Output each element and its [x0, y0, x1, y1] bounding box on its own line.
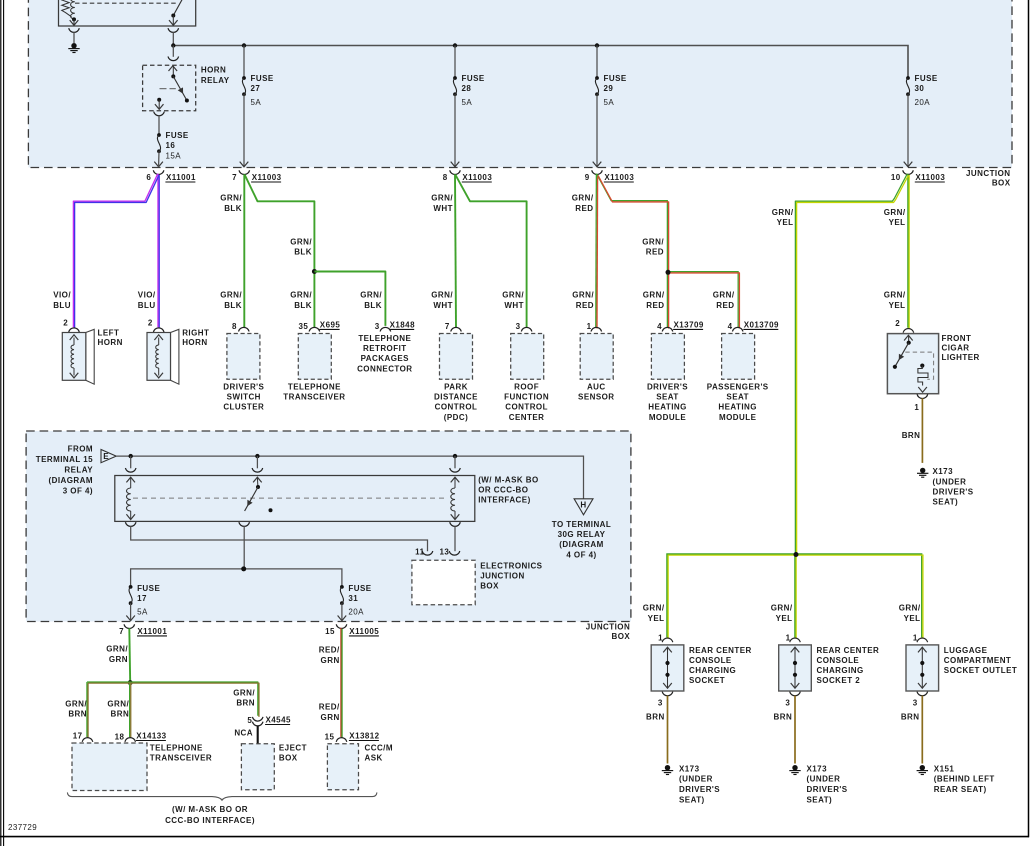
svg-text:RED: RED	[646, 301, 664, 310]
svg-text:X13709: X13709	[674, 321, 704, 330]
svg-text:FUSE: FUSE	[348, 584, 371, 593]
svg-text:LUGGAGE: LUGGAGE	[944, 646, 988, 655]
svg-text:SEAT: SEAT	[656, 393, 679, 402]
svg-text:COMPARTMENT: COMPARTMENT	[944, 656, 1011, 665]
svg-text:DRIVER'S: DRIVER'S	[933, 487, 974, 496]
svg-text:JUNCTION: JUNCTION	[480, 572, 525, 581]
svg-text:PACKAGES: PACKAGES	[361, 354, 410, 363]
svg-text:AUC: AUC	[587, 383, 606, 392]
svg-text:1: 1	[786, 633, 791, 642]
svg-text:YEL: YEL	[648, 614, 665, 623]
svg-text:RELAY: RELAY	[201, 76, 230, 85]
svg-text:OR CCC-BO: OR CCC-BO	[478, 486, 528, 495]
svg-text:GRN/: GRN/	[884, 208, 906, 217]
svg-text:NCA: NCA	[234, 728, 253, 737]
svg-text:FUSE: FUSE	[137, 584, 160, 593]
svg-text:15: 15	[325, 733, 335, 742]
svg-text:2: 2	[895, 319, 900, 328]
svg-text:DRIVER'S: DRIVER'S	[679, 785, 720, 794]
svg-text:X695: X695	[320, 321, 341, 330]
svg-text:X173: X173	[933, 467, 954, 476]
svg-text:TERMINAL 15: TERMINAL 15	[36, 455, 93, 464]
svg-text:BLK: BLK	[224, 301, 242, 310]
svg-text:DISTANCE: DISTANCE	[434, 393, 478, 402]
svg-text:MODULE: MODULE	[649, 413, 687, 422]
svg-text:GRN/: GRN/	[572, 291, 594, 300]
svg-text:FROM: FROM	[68, 445, 93, 454]
svg-text:X11003: X11003	[252, 173, 282, 182]
svg-text:3: 3	[375, 322, 380, 331]
svg-text:29: 29	[604, 84, 614, 93]
svg-text:(PDC): (PDC)	[444, 413, 468, 422]
svg-text:DRIVER'S: DRIVER'S	[223, 383, 264, 392]
svg-text:CIGAR: CIGAR	[942, 343, 970, 352]
svg-text:SOCKET OUTLET: SOCKET OUTLET	[944, 666, 1017, 675]
svg-text:4: 4	[728, 322, 733, 331]
svg-text:X11003: X11003	[462, 173, 492, 182]
svg-text:BRN: BRN	[901, 713, 920, 722]
svg-text:1: 1	[587, 322, 592, 331]
svg-text:3: 3	[785, 698, 790, 707]
svg-text:BOX: BOX	[612, 632, 631, 641]
svg-text:SWITCH: SWITCH	[227, 393, 261, 402]
svg-text:16: 16	[166, 141, 176, 150]
svg-text:VIO/: VIO/	[138, 291, 156, 300]
svg-text:GRN/: GRN/	[642, 237, 664, 246]
svg-text:1: 1	[914, 403, 919, 412]
svg-text:FUSE: FUSE	[604, 74, 627, 83]
svg-text:(BEHIND LEFT: (BEHIND LEFT	[934, 775, 995, 784]
svg-text:GRN/: GRN/	[220, 291, 242, 300]
svg-text:E: E	[103, 452, 109, 461]
svg-text:GRN/: GRN/	[290, 291, 312, 300]
svg-text:ROOF: ROOF	[514, 383, 539, 392]
svg-text:X4545: X4545	[266, 716, 291, 725]
svg-text:BLK: BLK	[294, 248, 312, 257]
svg-text:RED: RED	[575, 204, 593, 213]
svg-text:CONNECTOR: CONNECTOR	[357, 364, 412, 373]
svg-text:15: 15	[325, 627, 335, 636]
svg-text:3: 3	[516, 322, 521, 331]
svg-text:CONTROL: CONTROL	[505, 403, 548, 412]
svg-text:9: 9	[585, 173, 590, 182]
svg-text:X1848: X1848	[390, 321, 415, 330]
svg-text:CONSOLE: CONSOLE	[689, 656, 732, 665]
svg-text:EJECT: EJECT	[279, 744, 307, 753]
svg-text:JUNCTION: JUNCTION	[586, 623, 631, 632]
svg-text:(UNDER: (UNDER	[679, 775, 713, 784]
svg-text:X11005: X11005	[349, 627, 379, 636]
svg-text:BOX: BOX	[279, 754, 298, 763]
svg-text:17: 17	[73, 732, 83, 741]
svg-text:BLU: BLU	[53, 301, 71, 310]
svg-text:BRN: BRN	[902, 431, 921, 440]
svg-text:3 OF 4): 3 OF 4)	[63, 486, 93, 495]
svg-text:X11001: X11001	[166, 173, 196, 182]
svg-text:GRN/: GRN/	[884, 291, 906, 300]
svg-text:YEL: YEL	[904, 614, 921, 623]
svg-text:FUSE: FUSE	[462, 74, 485, 83]
svg-text:30G RELAY: 30G RELAY	[558, 530, 606, 539]
svg-text:BLK: BLK	[294, 301, 312, 310]
svg-text:13: 13	[439, 547, 449, 556]
svg-text:8: 8	[232, 322, 237, 331]
svg-text:ASK: ASK	[365, 754, 383, 763]
svg-text:SOCKET 2: SOCKET 2	[817, 676, 861, 685]
svg-text:SEAT: SEAT	[726, 393, 749, 402]
svg-text:X11001: X11001	[137, 627, 167, 636]
svg-text:2: 2	[148, 319, 153, 328]
svg-text:GRN/: GRN/	[107, 699, 129, 708]
svg-text:YEL: YEL	[776, 614, 793, 623]
svg-text:PARK: PARK	[444, 383, 468, 392]
svg-text:SOCKET: SOCKET	[689, 676, 725, 685]
svg-text:YEL: YEL	[889, 301, 906, 310]
svg-text:TELEPHONE: TELEPHONE	[150, 744, 203, 753]
svg-text:GRN/: GRN/	[643, 291, 665, 300]
svg-text:CCC/M: CCC/M	[365, 744, 393, 753]
svg-text:17: 17	[137, 594, 147, 603]
svg-text:GRN/: GRN/	[65, 699, 87, 708]
svg-text:7: 7	[232, 173, 237, 182]
svg-text:(UNDER: (UNDER	[807, 775, 841, 784]
svg-text:REAR CENTER: REAR CENTER	[817, 646, 880, 655]
svg-text:BOX: BOX	[992, 179, 1011, 188]
svg-text:4: 4	[657, 322, 662, 331]
svg-text:18: 18	[115, 733, 125, 742]
svg-text:REAR SEAT): REAR SEAT)	[934, 785, 987, 794]
svg-text:BRN: BRN	[68, 710, 87, 719]
svg-text:GRN/: GRN/	[771, 604, 793, 613]
svg-text:5A: 5A	[251, 98, 262, 107]
svg-text:CONTROL: CONTROL	[435, 403, 478, 412]
svg-text:RED/: RED/	[319, 646, 340, 655]
svg-text:11: 11	[415, 547, 424, 556]
svg-text:PASSENGER'S: PASSENGER'S	[707, 383, 769, 392]
svg-text:GRN/: GRN/	[572, 194, 594, 203]
svg-text:GRN: GRN	[109, 655, 128, 664]
svg-text:CENTER: CENTER	[509, 413, 545, 422]
svg-text:DRIVER'S: DRIVER'S	[647, 383, 688, 392]
svg-text:28: 28	[462, 84, 472, 93]
svg-text:WHT: WHT	[504, 301, 524, 310]
svg-text:GRN/: GRN/	[502, 291, 524, 300]
svg-text:(DIAGRAM: (DIAGRAM	[49, 476, 93, 485]
svg-text:5: 5	[247, 716, 252, 725]
svg-text:CLUSTER: CLUSTER	[223, 403, 264, 412]
svg-text:RED: RED	[576, 301, 594, 310]
svg-text:RIGHT: RIGHT	[182, 328, 209, 337]
svg-text:15A: 15A	[166, 151, 182, 160]
svg-text:REAR CENTER: REAR CENTER	[689, 646, 752, 655]
svg-text:GRN/: GRN/	[772, 208, 794, 217]
svg-text:HEATING: HEATING	[718, 403, 757, 412]
svg-text:YEL: YEL	[777, 218, 794, 227]
svg-text:HEATING: HEATING	[648, 403, 687, 412]
svg-text:10: 10	[891, 173, 901, 182]
svg-text:GRN/: GRN/	[899, 604, 921, 613]
svg-text:TRANSCEIVER: TRANSCEIVER	[283, 393, 345, 402]
svg-text:RETROFIT: RETROFIT	[363, 344, 407, 353]
svg-text:2: 2	[63, 319, 68, 328]
svg-text:RED: RED	[646, 248, 664, 257]
svg-text:7: 7	[445, 322, 450, 331]
svg-text:GRN: GRN	[321, 713, 340, 722]
svg-text:20A: 20A	[915, 98, 931, 107]
svg-text:X11003: X11003	[604, 173, 634, 182]
svg-text:237729: 237729	[8, 823, 37, 832]
svg-text:5A: 5A	[604, 98, 615, 107]
svg-text:GRN/: GRN/	[643, 604, 665, 613]
svg-text:RED: RED	[716, 301, 734, 310]
svg-text:X013709: X013709	[744, 321, 779, 330]
svg-text:FUNCTION: FUNCTION	[504, 393, 549, 402]
svg-text:GRN/: GRN/	[106, 645, 128, 654]
svg-text:30: 30	[915, 84, 925, 93]
svg-text:BLU: BLU	[138, 301, 156, 310]
svg-text:X173: X173	[679, 764, 700, 773]
svg-text:BRN: BRN	[236, 699, 255, 708]
svg-text:GRN/: GRN/	[431, 291, 453, 300]
svg-text:FUSE: FUSE	[251, 74, 274, 83]
svg-text:FUSE: FUSE	[915, 74, 938, 83]
svg-text:X11003: X11003	[915, 173, 945, 182]
svg-text:(UNDER: (UNDER	[933, 477, 967, 486]
svg-text:JUNCTION: JUNCTION	[966, 169, 1011, 178]
svg-text:WHT: WHT	[433, 204, 453, 213]
svg-text:BLK: BLK	[364, 301, 382, 310]
svg-text:4 OF 4): 4 OF 4)	[566, 550, 596, 559]
svg-text:X173: X173	[807, 764, 828, 773]
svg-text:CHARGING: CHARGING	[817, 666, 864, 675]
svg-text:RELAY: RELAY	[64, 466, 93, 475]
svg-text:SEAT): SEAT)	[933, 498, 959, 507]
svg-text:INTERFACE): INTERFACE)	[478, 495, 531, 504]
svg-text:RED/: RED/	[319, 703, 340, 712]
svg-text:X13812: X13812	[349, 732, 379, 741]
svg-text:SEAT): SEAT)	[807, 796, 833, 805]
svg-text:BRN: BRN	[646, 713, 665, 722]
svg-text:TRANSCEIVER: TRANSCEIVER	[150, 754, 212, 763]
svg-text:1: 1	[658, 633, 663, 642]
svg-text:GRN/: GRN/	[233, 688, 255, 697]
svg-text:CHARGING: CHARGING	[689, 666, 736, 675]
svg-text:BLK: BLK	[224, 204, 242, 213]
svg-text:X14133: X14133	[136, 732, 166, 741]
svg-text:(W/ M-ASK BO: (W/ M-ASK BO	[478, 476, 539, 485]
svg-text:LIGHTER: LIGHTER	[942, 353, 980, 362]
svg-text:FUSE: FUSE	[166, 131, 189, 140]
svg-text:LEFT: LEFT	[98, 328, 120, 337]
svg-text:20A: 20A	[348, 608, 364, 617]
svg-text:TO TERMINAL: TO TERMINAL	[552, 520, 611, 529]
svg-text:DRIVER'S: DRIVER'S	[807, 785, 848, 794]
svg-text:MODULE: MODULE	[719, 413, 757, 422]
svg-text:HORN: HORN	[182, 338, 207, 347]
svg-text:3: 3	[658, 698, 663, 707]
svg-text:6: 6	[146, 173, 151, 182]
svg-text:BOX: BOX	[480, 582, 499, 591]
svg-text:X151: X151	[934, 764, 955, 773]
svg-text:TELEPHONE: TELEPHONE	[358, 334, 411, 343]
svg-text:5A: 5A	[137, 608, 148, 617]
svg-text:BRN: BRN	[774, 713, 793, 722]
svg-text:(W/ M-ASK BO OR: (W/ M-ASK BO OR	[172, 805, 248, 814]
svg-text:GRN/: GRN/	[290, 237, 312, 246]
svg-text:5A: 5A	[462, 98, 473, 107]
svg-text:GRN/: GRN/	[360, 291, 382, 300]
svg-text:GRN: GRN	[321, 656, 340, 665]
svg-text:CONSOLE: CONSOLE	[817, 656, 860, 665]
svg-text:VIO/: VIO/	[53, 291, 71, 300]
svg-text:FRONT: FRONT	[942, 334, 972, 343]
svg-text:(DIAGRAM: (DIAGRAM	[559, 540, 603, 549]
svg-text:GRN/: GRN/	[713, 291, 735, 300]
svg-text:WHT: WHT	[433, 301, 453, 310]
svg-text:H: H	[580, 501, 586, 510]
svg-text:SENSOR: SENSOR	[578, 393, 615, 402]
svg-text:CCC-BO INTERFACE): CCC-BO INTERFACE)	[165, 816, 255, 825]
svg-text:HORN: HORN	[98, 338, 123, 347]
svg-text:8: 8	[443, 173, 448, 182]
svg-text:ELECTRONICS: ELECTRONICS	[480, 562, 542, 571]
svg-text:SEAT): SEAT)	[679, 796, 705, 805]
svg-text:31: 31	[348, 594, 358, 603]
svg-text:1: 1	[913, 633, 918, 642]
svg-text:GRN/: GRN/	[220, 194, 242, 203]
svg-text:7: 7	[119, 627, 124, 636]
svg-text:TELEPHONE: TELEPHONE	[288, 383, 341, 392]
svg-text:YEL: YEL	[889, 218, 906, 227]
svg-text:35: 35	[298, 322, 308, 331]
svg-text:GRN/: GRN/	[431, 194, 453, 203]
svg-text:27: 27	[251, 84, 261, 93]
svg-text:BRN: BRN	[111, 710, 130, 719]
svg-text:3: 3	[913, 698, 918, 707]
svg-text:HORN: HORN	[201, 66, 226, 75]
